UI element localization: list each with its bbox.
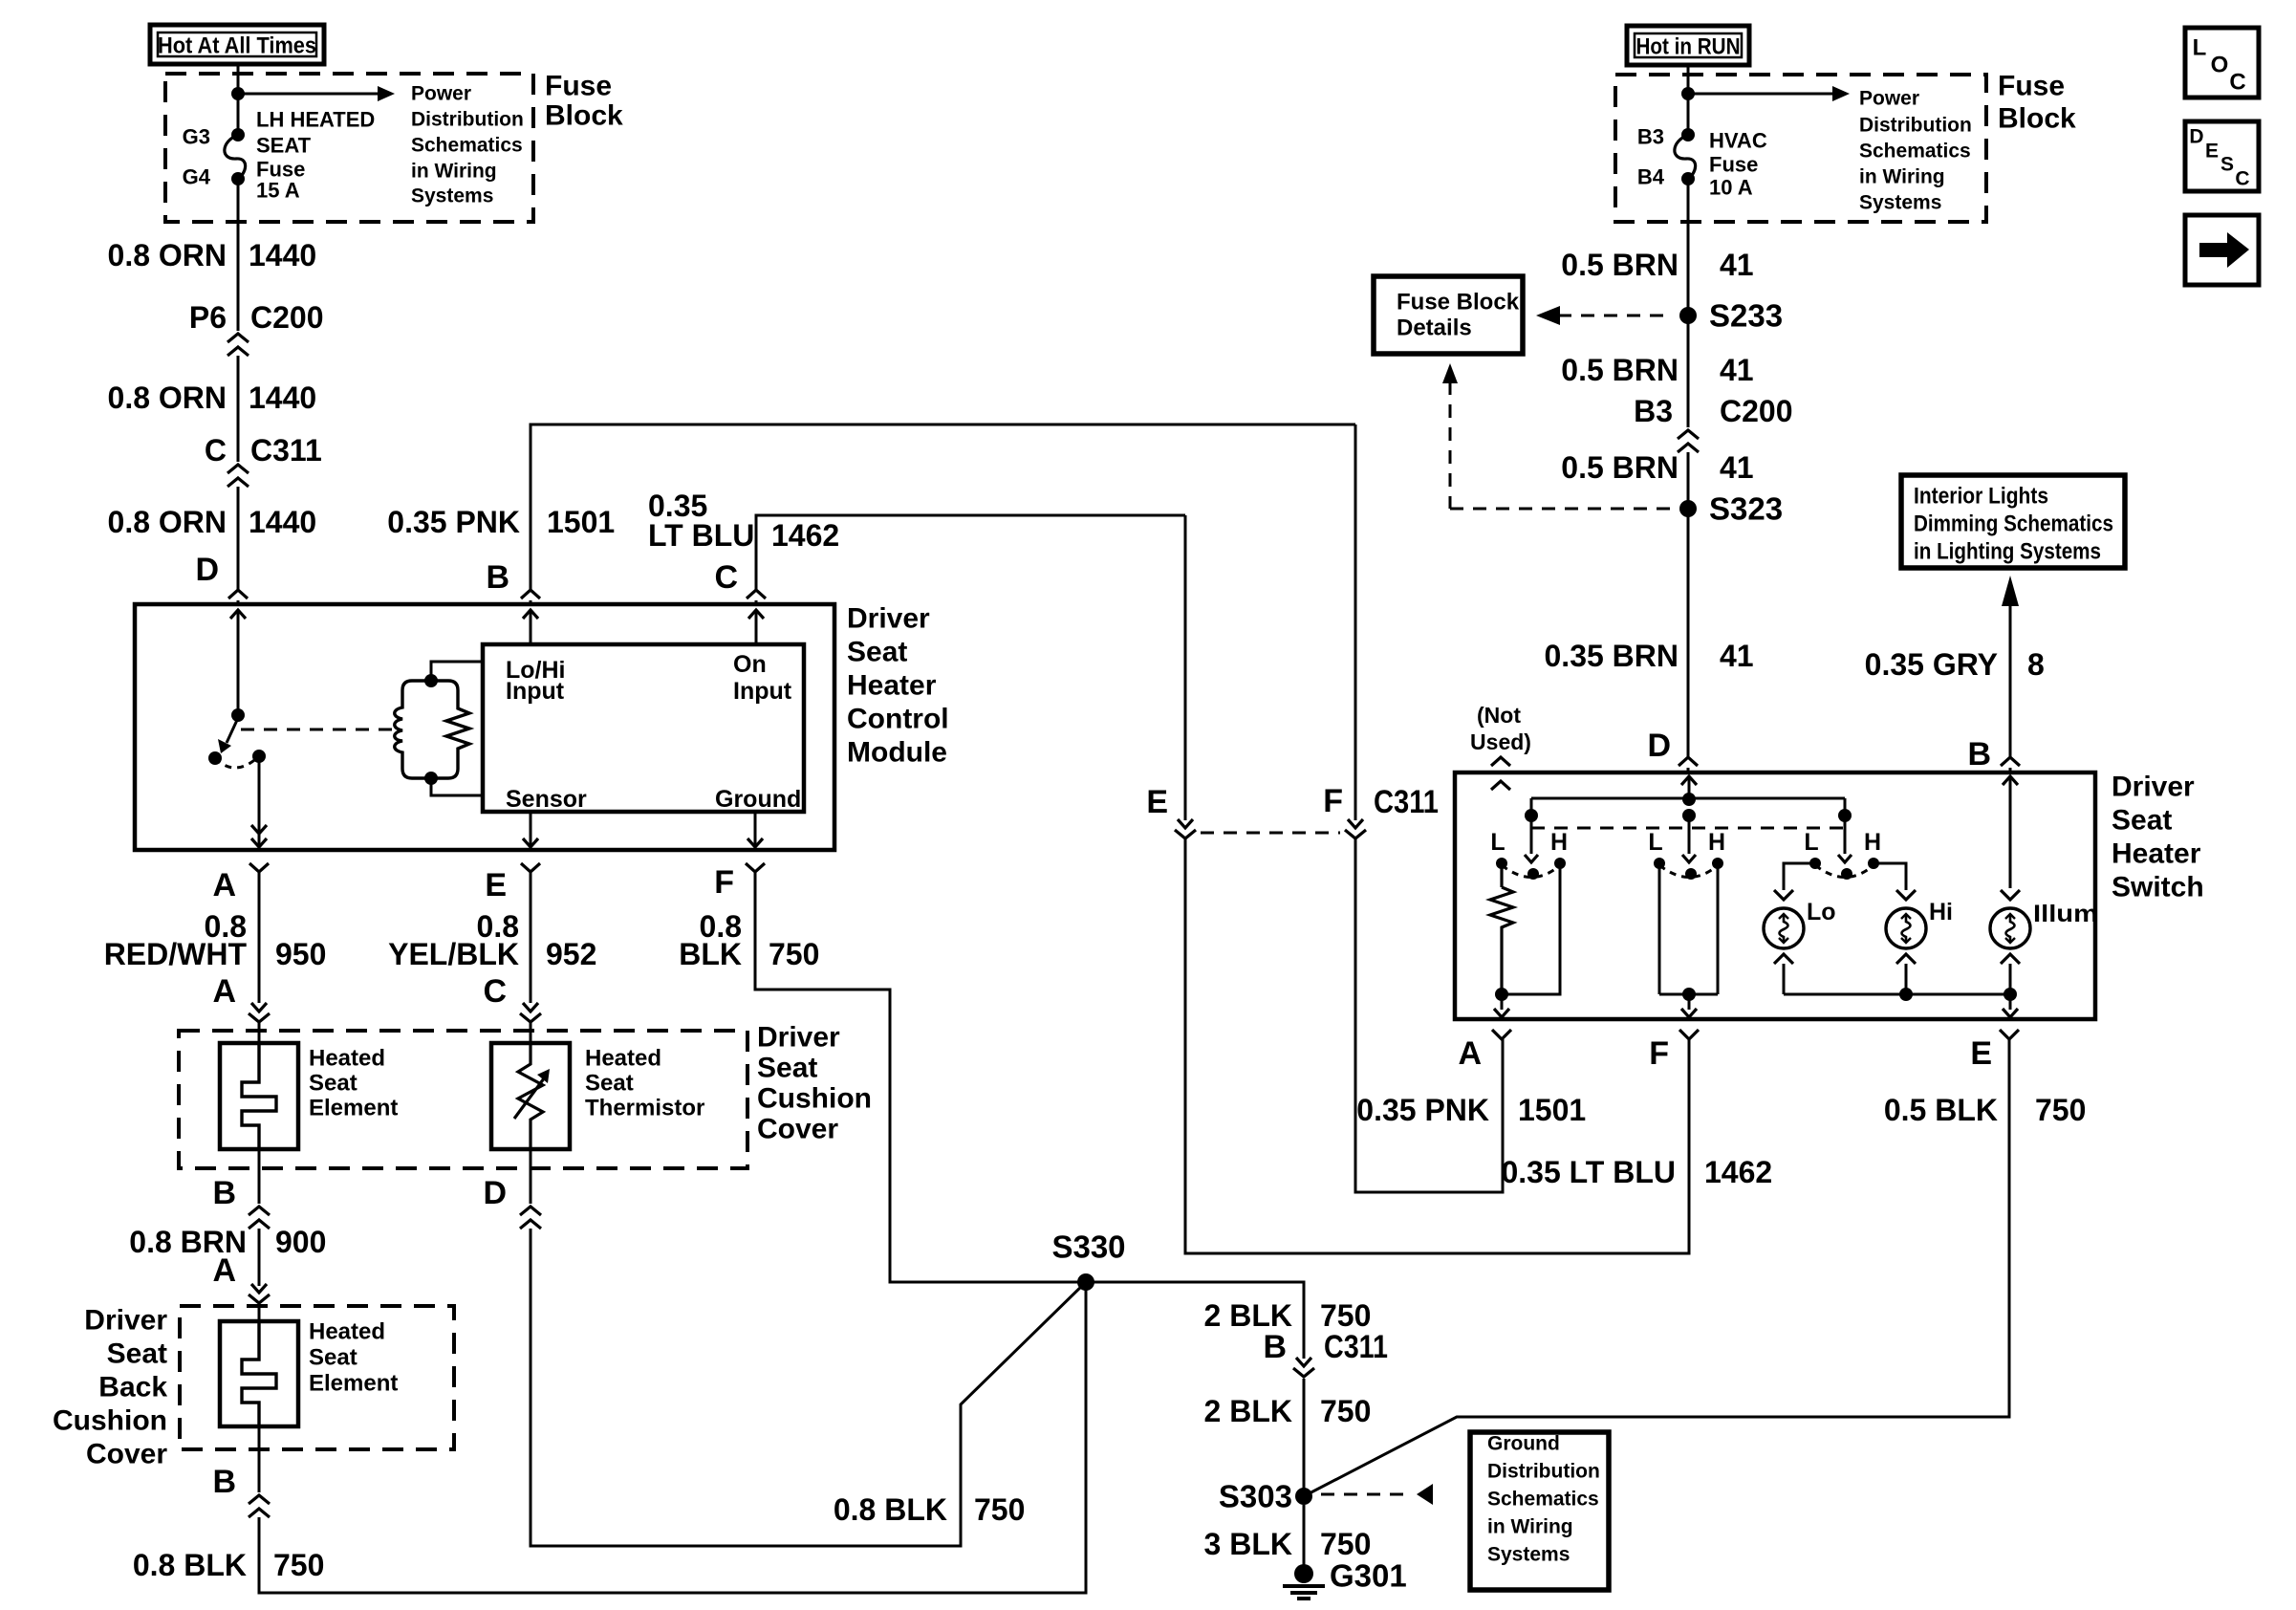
- svg-text:G4: G4: [183, 165, 211, 189]
- module internal wire A with double arrow: [258, 756, 261, 847]
- svg-text:Fuse: Fuse: [1998, 71, 2065, 102]
- svg-text:Illum: Illum: [2033, 901, 2098, 927]
- relay contact dot left: [208, 751, 222, 765]
- module pin D connector half: [228, 590, 248, 598]
- section3 L wire to Lo lamp: [1784, 863, 1815, 890]
- heated seat thermistor box: [491, 1043, 570, 1149]
- svg-text:Systems: Systems: [1487, 1544, 1570, 1566]
- switch pole dots: [1525, 809, 1538, 822]
- svg-text:in Lighting Systems: in Lighting Systems: [1914, 539, 2101, 565]
- relay sense resistor (right side of parallel pair): [446, 681, 469, 778]
- reference box: Ground Distribution Schematics in Wiring Systems: [1470, 1432, 1609, 1590]
- svg-text:D: D: [2189, 126, 2203, 148]
- section1 output arrow to A: [1501, 994, 1504, 1010]
- svg-text:C200: C200: [250, 300, 324, 335]
- splice S233 dot: [1679, 307, 1697, 324]
- svg-text:L: L: [1648, 829, 1662, 856]
- wire thermistor D down: [530, 1149, 532, 1204]
- svg-text:Heater: Heater: [2112, 838, 2201, 870]
- svg-text:E: E: [1146, 784, 1168, 820]
- heated seat element (back) meander: [242, 1321, 276, 1426]
- svg-text:Element: Element: [309, 1096, 398, 1121]
- fuse block dashed box (left): [165, 74, 533, 222]
- switch section1 H leg: [1502, 863, 1560, 994]
- fuse F1 terminal G4 dot: [231, 172, 245, 185]
- svg-text:RED/WHT: RED/WHT: [104, 937, 248, 971]
- fuse F1 element (S-curve): [225, 135, 246, 179]
- heated seat thermistor arrow: [514, 1075, 547, 1119]
- svg-text:B: B: [486, 559, 509, 596]
- connector C311 (double chevron): [227, 465, 249, 473]
- module pin C connector half: [747, 590, 766, 598]
- module internal wire E (Sensor out): [530, 812, 532, 847]
- svg-text:D: D: [195, 552, 219, 588]
- svg-text:Seat: Seat: [2112, 805, 2172, 837]
- arrow up to Interior Lights reference: [2009, 604, 2012, 757]
- switch pin D connector half: [1679, 757, 1698, 766]
- svg-text:C: C: [2229, 70, 2245, 96]
- module internal wire B (Lo/Hi input): [523, 610, 538, 619]
- wire 0.8 BRN 900: [258, 1229, 261, 1286]
- svg-text:A: A: [1458, 1035, 1482, 1072]
- svg-text:0.8 ORN: 0.8 ORN: [108, 381, 227, 415]
- svg-text:L: L: [2193, 35, 2207, 61]
- svg-text:750: 750: [273, 1548, 324, 1582]
- svg-text:E: E: [485, 867, 507, 903]
- connector C311 F (arrow+chevron): [1348, 819, 1363, 828]
- wire 0.5 BRN 41 segment 1: [1687, 179, 1690, 427]
- wire 0.8 ORN 1440 segment 3: [237, 487, 240, 590]
- wire S330 to C311 B: [1086, 1282, 1304, 1359]
- svg-text:750: 750: [2035, 1093, 2086, 1127]
- svg-text:Driver: Driver: [757, 1022, 840, 1054]
- svg-text:0.8 BLK: 0.8 BLK: [133, 1548, 247, 1582]
- fuse block dashed box (right): [1615, 75, 1986, 222]
- wire coil top to logic box: [431, 662, 483, 681]
- lamp Illum: [2001, 890, 2020, 900]
- svg-text:0.35 GRY: 0.35 GRY: [1865, 647, 1998, 682]
- section3 H wire to Hi lamp: [1874, 863, 1906, 890]
- svg-text:Input: Input: [733, 678, 792, 705]
- svg-text:S330: S330: [1051, 1229, 1125, 1265]
- wire coil bottom to logic box: [431, 778, 483, 795]
- wire from Hot in RUN into fuse block: [1687, 65, 1690, 135]
- svg-text:B3: B3: [1634, 394, 1673, 428]
- dashed box: Driver Seat Back Cushion Cover: [180, 1306, 454, 1449]
- svg-text:Heater: Heater: [847, 670, 937, 702]
- svg-text:Fuse Block: Fuse Block: [1397, 290, 1520, 315]
- dashed link between C311 E and F: [1201, 832, 1340, 835]
- svg-text:Cushion: Cushion: [757, 1083, 872, 1115]
- svg-text:Used): Used): [1470, 729, 1531, 754]
- switch section2 H leg: [1717, 863, 1720, 994]
- module internal wire F (Ground out): [754, 812, 757, 847]
- module pin B connector half: [521, 590, 540, 598]
- svg-text:C200: C200: [1720, 394, 1793, 428]
- switch section 1 wiper (heat level): [1530, 816, 1533, 854]
- nav box LOC: [2185, 28, 2259, 98]
- svg-text:Fuse: Fuse: [545, 71, 612, 102]
- svg-text:Sensor: Sensor: [506, 786, 587, 813]
- switch pin B connector half: [2001, 757, 2020, 766]
- svg-text:1440: 1440: [249, 505, 316, 539]
- wire 0.5 BRN 41 segment 2: [1687, 452, 1690, 590]
- svg-text:C311: C311: [1324, 1329, 1388, 1365]
- svg-text:750: 750: [1320, 1298, 1371, 1333]
- wire 0.8 BLK 750 to ground run: [259, 1282, 1086, 1593]
- svg-text:Hi: Hi: [1929, 899, 1953, 925]
- svg-text:(Not: (Not: [1477, 703, 1521, 728]
- wire 0.8 ORN 1440 segment 2: [237, 356, 240, 462]
- svg-text:Heated: Heated: [309, 1319, 385, 1345]
- svg-text:1462: 1462: [1704, 1155, 1772, 1189]
- svg-text:S323: S323: [1709, 491, 1783, 527]
- svg-text:SEAT: SEAT: [256, 134, 312, 158]
- svg-text:Seat: Seat: [585, 1071, 634, 1097]
- wire back element B down: [258, 1426, 261, 1492]
- wire PNK down to C311 F: [1354, 424, 1357, 820]
- svg-text:G301: G301: [1330, 1558, 1407, 1594]
- connector below back cover B (double chevron): [249, 1495, 270, 1504]
- svg-text:L: L: [1490, 829, 1505, 856]
- module box: Driver Seat Heater Control Module: [135, 604, 834, 850]
- svg-text:Dimming Schematics: Dimming Schematics: [1914, 511, 2113, 537]
- parallel pair top bar: [412, 679, 448, 682]
- svg-text:Ground: Ground: [1487, 1433, 1560, 1455]
- reference box: Fuse Block Details: [1374, 276, 1523, 354]
- svg-text:41: 41: [1720, 450, 1754, 485]
- svg-text:F: F: [1649, 1035, 1669, 1072]
- svg-text:Seat: Seat: [309, 1071, 357, 1097]
- svg-text:Seat: Seat: [107, 1338, 167, 1370]
- connector below thermistor D (double chevron): [520, 1207, 541, 1215]
- svg-text:F: F: [1323, 783, 1343, 819]
- lamp ground bus: [1784, 993, 2010, 996]
- svg-text:Heated: Heated: [309, 1046, 385, 1072]
- svg-text:B3: B3: [1637, 125, 1664, 149]
- switch feed bus from D: [1531, 797, 1845, 800]
- svg-text:8: 8: [2027, 647, 2045, 682]
- svg-text:750: 750: [1320, 1527, 1371, 1561]
- svg-text:C: C: [205, 433, 227, 468]
- svg-text:B4: B4: [1637, 165, 1665, 189]
- svg-text:Input: Input: [506, 678, 565, 705]
- svg-text:Fuse: Fuse: [1709, 153, 1758, 177]
- svg-text:Systems: Systems: [1859, 192, 1941, 214]
- module internal terminal arrow at D: [230, 610, 246, 619]
- wire 0.8 ORN 1440 segment 1: [237, 179, 240, 331]
- svg-text:Element: Element: [309, 1371, 398, 1397]
- svg-text:E: E: [2205, 141, 2219, 163]
- lamp Hi: [1896, 890, 1916, 900]
- module internal wire C (On input): [748, 610, 764, 619]
- splice S303 dot: [1295, 1488, 1312, 1505]
- switch pin E connector half: [2000, 1030, 2019, 1039]
- svg-text:E: E: [1970, 1035, 1992, 1072]
- svg-text:Thermistor: Thermistor: [585, 1096, 704, 1121]
- wire from Hot At All Times into fuse block: [237, 64, 240, 135]
- svg-text:Schematics: Schematics: [1859, 141, 1971, 163]
- section2 output arrow to F: [1688, 994, 1691, 1010]
- connector C311 B (arrow+chevron): [1296, 1358, 1311, 1366]
- svg-text:G3: G3: [183, 125, 210, 149]
- svg-text:H: H: [1550, 829, 1568, 856]
- module logic inner box: [483, 644, 804, 812]
- dashed reference arrow S233 to Fuse Block Details: [1558, 315, 1671, 317]
- connector C311 E (arrow+chevron): [1178, 819, 1193, 828]
- svg-text:C311: C311: [250, 433, 322, 468]
- connector into cushion cover at A: [251, 1003, 267, 1012]
- svg-text:HVAC: HVAC: [1709, 129, 1767, 153]
- svg-text:Block: Block: [1998, 103, 2076, 135]
- svg-text:15 A: 15 A: [256, 179, 300, 203]
- svg-text:in Wiring: in Wiring: [1487, 1516, 1573, 1538]
- dashed box: Driver Seat Cushion Cover: [179, 1031, 747, 1168]
- parallel pair bottom bar: [412, 776, 448, 779]
- heated seat thermistor zigzag: [518, 1043, 543, 1149]
- svg-text:Back: Back: [98, 1372, 167, 1403]
- wire 0.35 PNK 1501 from module B: [531, 424, 1355, 590]
- svg-text:1440: 1440: [249, 238, 316, 272]
- switch internal terminal arrow at B: [2003, 776, 2018, 785]
- arrow to Power Distribution reference (right): [1688, 93, 1835, 96]
- svg-text:C311: C311: [1374, 784, 1439, 820]
- svg-text:10 A: 10 A: [1709, 176, 1753, 200]
- svg-text:41: 41: [1720, 639, 1754, 673]
- wire PNK below C311 F to switch A: [1355, 838, 1503, 1192]
- relay coil (left side of parallel pair): [395, 681, 412, 778]
- relay contact dashed travel arc: [215, 756, 259, 768]
- power label box: Hot in RUN: [1627, 26, 1749, 65]
- svg-text:1501: 1501: [1518, 1093, 1586, 1127]
- svg-text:P6: P6: [189, 300, 227, 335]
- svg-text:D: D: [1647, 728, 1671, 764]
- svg-text:LT BLU: LT BLU: [648, 518, 754, 553]
- svg-text:B: B: [212, 1175, 236, 1211]
- svg-text:S: S: [2220, 154, 2234, 176]
- svg-text:S233: S233: [1709, 298, 1783, 334]
- power label box: Hot At All Times: [150, 25, 324, 64]
- heated seat element (cushion) box: [220, 1043, 298, 1149]
- svg-text:Power: Power: [1859, 88, 1919, 110]
- svg-text:S303: S303: [1219, 1479, 1292, 1514]
- svg-text:D: D: [483, 1175, 507, 1211]
- connector C200 right (double chevron): [1678, 430, 1699, 439]
- lamp Lo: [1774, 890, 1793, 900]
- switch section 3 wiper (lamps): [1844, 816, 1847, 854]
- wire LT BLU below C311 E to switch F: [1185, 838, 1689, 1253]
- svg-text:Driver: Driver: [847, 603, 930, 635]
- svg-text:1501: 1501: [547, 505, 615, 539]
- svg-text:Seat: Seat: [847, 637, 907, 668]
- svg-text:in Wiring: in Wiring: [1859, 166, 1945, 188]
- svg-text:0.8 ORN: 0.8 ORN: [108, 505, 227, 539]
- svg-text:B: B: [1263, 1329, 1287, 1365]
- svg-text:Interior Lights: Interior Lights: [1914, 484, 2048, 510]
- svg-text:On: On: [733, 651, 767, 678]
- wire 0.35 BRN 41 to switch D: [1687, 590, 1690, 757]
- svg-text:F: F: [714, 864, 734, 901]
- section1 output junction dot: [1495, 988, 1508, 1001]
- switch section 2 wiper (on/off): [1688, 816, 1691, 854]
- fuse F1 LH Heated Seat: terminal G3 dot: [231, 128, 245, 141]
- svg-text:Hot At All Times: Hot At All Times: [158, 33, 316, 59]
- svg-text:H: H: [1864, 829, 1881, 856]
- svg-text:950: 950: [275, 937, 326, 971]
- svg-text:Details: Details: [1397, 315, 1472, 341]
- svg-text:0.5 BLK: 0.5 BLK: [1884, 1093, 1998, 1127]
- svg-text:Seat: Seat: [309, 1345, 357, 1371]
- connector into cushion cover at C: [523, 1003, 538, 1012]
- svg-text:Control: Control: [847, 704, 949, 735]
- svg-text:0.35 PNK: 0.35 PNK: [1356, 1093, 1489, 1127]
- svg-text:952: 952: [546, 937, 596, 971]
- module pin F connector half: [746, 863, 765, 872]
- svg-text:0.35 LT BLU: 0.35 LT BLU: [1501, 1155, 1676, 1189]
- dashed reference arrow S323 to Fuse Block Details: [1449, 381, 1452, 509]
- fuse F2 HVAC: terminal B3 dot: [1681, 128, 1695, 141]
- reference box: Interior Lights Dimming Schematics in Lighting Systems: [1901, 475, 2125, 568]
- wire 3 BLK 750 to ground: [1303, 1505, 1306, 1569]
- junction dot on feed (right): [1681, 87, 1695, 100]
- switch box: Driver Seat Heater Switch: [1455, 772, 2095, 1019]
- svg-text:Cover: Cover: [86, 1439, 167, 1470]
- svg-text:O: O: [2211, 53, 2229, 78]
- connector C200 (double chevron): [227, 334, 249, 342]
- svg-text:BLK: BLK: [679, 937, 742, 971]
- svg-text:Lo: Lo: [1807, 899, 1836, 925]
- svg-text:41: 41: [1720, 248, 1754, 282]
- relay contact dot right (to A): [252, 750, 266, 763]
- svg-text:C: C: [2235, 168, 2249, 190]
- switch section2 L leg: [1658, 863, 1661, 994]
- svg-text:C: C: [714, 559, 738, 596]
- svg-text:2 BLK: 2 BLK: [1204, 1298, 1292, 1333]
- nav box DESC: [2185, 121, 2259, 191]
- illum output arrow to E: [2009, 994, 2012, 1010]
- svg-text:Distribution: Distribution: [411, 109, 524, 131]
- dashed mechanical link to relay coil: [241, 729, 401, 731]
- svg-text:L: L: [1804, 829, 1818, 856]
- svg-text:750: 750: [1320, 1394, 1371, 1428]
- svg-text:0.5 BRN: 0.5 BRN: [1561, 353, 1679, 387]
- switch pin A connector half: [1492, 1030, 1511, 1039]
- svg-text:Driver: Driver: [84, 1305, 167, 1337]
- svg-text:2 BLK: 2 BLK: [1204, 1394, 1292, 1428]
- coil pair top junction dot: [424, 674, 438, 687]
- svg-text:Seat: Seat: [757, 1053, 817, 1084]
- ground G301 symbol: [1283, 1584, 1325, 1588]
- ground G301 dot: [1294, 1564, 1313, 1583]
- svg-text:3 BLK: 3 BLK: [1204, 1527, 1292, 1561]
- svg-text:0.8 ORN: 0.8 ORN: [108, 238, 227, 272]
- svg-text:B: B: [212, 1464, 236, 1500]
- svg-text:Module: Module: [847, 737, 947, 769]
- section2 output bar: [1659, 993, 1718, 996]
- splice S330 dot: [1077, 1273, 1094, 1291]
- svg-text:Systems: Systems: [411, 185, 493, 207]
- wire 0.8 BLK 750 from F to S330: [755, 872, 1086, 1282]
- svg-text:A: A: [212, 973, 236, 1010]
- svg-text:YEL/BLK: YEL/BLK: [388, 937, 519, 971]
- svg-text:41: 41: [1720, 353, 1754, 387]
- svg-text:900: 900: [275, 1225, 326, 1259]
- svg-text:A: A: [212, 1252, 236, 1289]
- svg-text:Schematics: Schematics: [411, 135, 523, 157]
- lamp bus dot at Hi: [1899, 988, 1913, 1001]
- dashed gang link across switch poles: [1531, 827, 1845, 830]
- svg-text:0.5 BRN: 0.5 BRN: [1561, 450, 1679, 485]
- svg-text:Distribution: Distribution: [1859, 115, 1972, 137]
- wire LT BLU down to C311 E: [1184, 515, 1187, 820]
- switch internal terminal arrow at D: [1681, 776, 1697, 785]
- svg-text:A: A: [212, 867, 236, 903]
- svg-text:Heated: Heated: [585, 1046, 661, 1072]
- splice S323 dot: [1679, 500, 1697, 517]
- fuse F2 element (S-curve): [1675, 135, 1696, 179]
- module pin E connector half: [521, 863, 540, 872]
- svg-text:LH HEATED: LH HEATED: [256, 108, 375, 132]
- heated seat element (cushion) meander: [242, 1043, 276, 1149]
- wire 2 BLK 750 to S303: [1303, 1379, 1306, 1496]
- svg-text:in Wiring: in Wiring: [411, 161, 497, 183]
- wire 0.35 LT BLU 1462 from module C: [756, 515, 1185, 590]
- svg-text:Ground: Ground: [715, 786, 801, 813]
- svg-text:Hot in RUN: Hot in RUN: [1636, 34, 1741, 60]
- svg-text:0.5 BRN: 0.5 BRN: [1561, 248, 1679, 282]
- svg-text:1440: 1440: [249, 381, 316, 415]
- arrow to Power Distribution reference: [238, 93, 380, 96]
- svg-text:Cushion: Cushion: [53, 1405, 167, 1437]
- svg-text:0.35 PNK: 0.35 PNK: [387, 505, 520, 539]
- switch resistor (Lo dropping): [1500, 863, 1503, 887]
- switch pin F connector half: [1679, 1030, 1699, 1039]
- module pin A connector half: [249, 863, 269, 872]
- svg-text:1462: 1462: [771, 518, 839, 553]
- svg-text:Switch: Switch: [2112, 872, 2204, 903]
- relay switch common dot (D feed): [231, 708, 245, 722]
- svg-text:C: C: [483, 973, 507, 1010]
- wire 0.8 BLK 750 from thermistor to S330: [531, 1229, 1086, 1546]
- svg-text:750: 750: [974, 1492, 1025, 1527]
- svg-text:0.35 BRN: 0.35 BRN: [1545, 639, 1679, 673]
- svg-text:Schematics: Schematics: [1487, 1489, 1599, 1511]
- relay switch lever with arrow: [227, 718, 238, 743]
- lamp bus dot at Illum: [2004, 988, 2017, 1001]
- coil pair bottom junction dot: [424, 772, 438, 785]
- heated seat element (back) box: [220, 1321, 298, 1426]
- svg-text:Block: Block: [545, 100, 623, 132]
- section2 output junction dot: [1682, 988, 1696, 1001]
- wire 0.5 BLK from switch E to S303: [1304, 1039, 2009, 1496]
- svg-text:B: B: [1967, 736, 1991, 772]
- svg-text:Distribution: Distribution: [1487, 1461, 1600, 1483]
- dashed reference arrow from S303: [1321, 1493, 1411, 1496]
- svg-text:Cover: Cover: [757, 1114, 838, 1145]
- svg-text:Power: Power: [411, 83, 471, 105]
- fuse F2 terminal B4 dot: [1681, 172, 1695, 185]
- connector below cushion cover B (double chevron): [249, 1207, 270, 1215]
- wire element B down: [258, 1149, 261, 1204]
- bus junction dot at D: [1682, 793, 1696, 806]
- not-used terminal connector halves: [1491, 757, 1510, 766]
- svg-text:750: 750: [769, 937, 819, 971]
- junction dot on feed: [231, 87, 245, 100]
- svg-text:H: H: [1708, 829, 1725, 856]
- nav box arrow: [2185, 215, 2259, 285]
- svg-text:0.8 BLK: 0.8 BLK: [834, 1492, 947, 1527]
- svg-text:Driver: Driver: [2112, 772, 2195, 803]
